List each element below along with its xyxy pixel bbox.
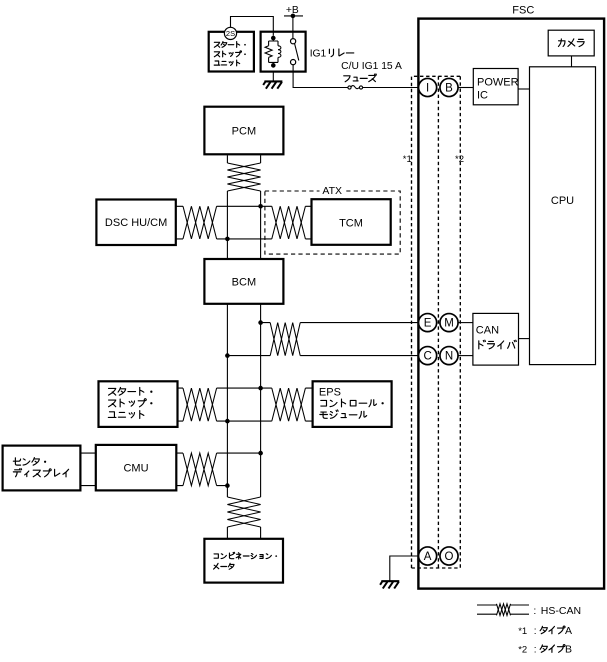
CPU box [530,67,596,365]
PCM box [204,107,283,155]
wire TCM twisted pair [272,206,306,239]
label start-stop lower line2 [109,399,153,407]
wire pin M to CAN driver [458,322,473,324]
wire center display to CMU [81,453,96,486]
label EPS line3 [320,410,367,418]
svg-text:M: M [444,318,454,330]
wire start-stop unit 2S to relay coil [231,17,274,36]
svg-text:B: B [445,83,453,95]
label C/U IG1 15 A fuse [341,61,402,72]
svg-text:E: E [424,318,432,330]
pin I [419,78,437,96]
connector 2S [224,27,236,39]
CMU box [96,445,177,491]
relay coil inductor element [278,46,281,58]
label start-stop lower line3 [108,411,143,419]
svg-text:EPS: EPS [319,386,341,398]
node relay coil top [271,36,276,41]
wire HS-CAN twisted pair above combination meter [227,497,260,527]
wire CAN-L bus vertical lower [226,304,228,497]
label start-stop lower line1 [109,387,153,395]
node CAN-H EPS row [258,386,263,391]
node CAN-L CMU row [225,483,230,488]
wire DSC/TCM row across bus [217,206,272,239]
wire DSC twisted pair [183,206,217,239]
CAN driver box [473,313,519,365]
wire EPS twisted pair [272,388,306,421]
pin B [440,78,458,96]
label *1 type A column [403,154,412,165]
svg-text:CAN: CAN [476,325,499,337]
svg-text:FSC: FSC [512,4,534,16]
wire pin A to ground [390,556,419,581]
svg-text:TCM: TCM [339,217,363,229]
svg-text:BCM: BCM [232,276,256,288]
svg-text:ATX: ATX [322,185,342,197]
node CAN-H DSC row [258,204,263,209]
DSC HU/CM box [96,200,175,246]
svg-text:*1: *1 [403,154,412,165]
EPS control module box [313,381,392,427]
svg-text:DSC HU/CM: DSC HU/CM [105,217,167,229]
label fuse kana [344,74,377,82]
label start-stop unit line2 [214,51,246,57]
label type B kana [540,645,565,653]
node +B junction [291,14,296,19]
combination meter box [204,539,283,583]
wire start-stop/EPS row across bus [217,388,272,421]
label CAN driver kana [479,340,517,349]
svg-text::: : [533,605,536,617]
wire PCM to bus stubs [227,155,260,163]
label center display line2 [13,469,68,477]
ground FSC pin A [380,581,399,588]
wire relay coil to ground [272,72,274,81]
pin N [440,347,458,365]
FSC box [418,4,604,588]
wire CMU twisted pair [183,453,217,486]
relay IG1 box [261,32,306,72]
node relay coil bottom [271,63,276,68]
BCM box [204,259,283,304]
label *2 type B column [455,154,464,165]
node CAN-H E row [258,320,263,325]
label center display line1 [13,458,46,466]
svg-text:A: A [565,625,572,637]
svg-text:C/U IG1 15 A: C/U IG1 15 A [341,61,402,72]
pin C [419,347,437,365]
label EPS line2 [321,399,384,407]
wire BCM-FSC twisted pair [270,323,300,356]
wire camera to CPU [571,56,573,67]
wire twisted pair to combination meter stubs [227,527,260,539]
TCM box [312,199,391,245]
svg-text:HS-CAN: HS-CAN [541,605,581,617]
wire start-stop stub [178,388,184,421]
label legend *1 type A [518,625,572,637]
relay coil frame [269,38,278,65]
label camera [558,39,584,47]
pin O [440,547,458,565]
svg-text:*2: *2 [518,644,527,655]
label legend HS-CAN [533,605,581,617]
ATX dashed box [265,185,400,254]
svg-text:N: N [445,351,453,363]
relay switch contacts [291,39,299,65]
wire start-stop twisted pair [183,388,217,421]
node CAN-H CMU row [258,451,263,456]
label combination meter line1 [214,552,277,559]
svg-text::: : [534,626,537,637]
svg-text:PCM: PCM [232,125,256,137]
wire +B supply bar [284,5,303,16]
node CAN-L C row [225,353,230,358]
svg-text:CMU: CMU [123,463,148,475]
node CAN-L EPS row [225,419,230,424]
wire BCM row to FSC pins E/C [227,323,418,356]
svg-text:I: I [426,83,429,95]
svg-text:O: O [445,551,454,563]
node CAN-L DSC row [225,237,230,242]
start-stop unit (lower) box [99,381,178,427]
start-stop unit (top) box [209,32,254,72]
svg-text::: : [534,644,537,655]
svg-text:*2: *2 [455,154,464,165]
label start-stop unit line1 [214,42,246,48]
connector dashed box type A / type B [412,76,461,568]
pin E [419,314,437,332]
label combination meter line2 [214,563,234,569]
svg-text:2S: 2S [226,29,235,38]
wire pin N to CAN driver [458,355,473,357]
svg-text:*1: *1 [518,626,527,637]
POWER IC box [473,69,518,105]
center display box [3,446,81,491]
wire POWER IC to CPU [518,88,529,90]
wire CAN driver to CPU [519,338,530,340]
svg-text:A: A [424,551,432,563]
svg-text:IC: IC [477,90,488,102]
wire fuse to FSC pin I [363,87,419,89]
wire CMU row to bus [217,453,261,486]
legend HS-CAN twisted pair symbol [477,604,529,616]
svg-text:B: B [565,643,572,655]
svg-text:POWER: POWER [477,76,519,88]
svg-text:C: C [423,351,431,363]
label type A kana [540,626,565,634]
wire pin B to POWER IC [458,87,473,89]
label IG1 relay kana [329,49,353,57]
wire +B to relay switch [292,16,294,39]
label legend *2 type B [518,643,572,655]
camera unit box [548,30,594,56]
ground relay coil [263,81,282,88]
wire DSC stub [176,206,183,239]
wire CMU stub [176,453,183,486]
wire CAN-H bus vertical upper [260,191,262,259]
pin M [440,314,458,332]
relay coil resistor element [265,46,272,58]
svg-text:CPU: CPU [551,195,574,207]
wire CAN-L bus vertical upper [226,191,228,259]
wire TCM stub [305,206,311,239]
svg-text:IG1: IG1 [310,49,327,60]
pin A [419,547,437,565]
fuse C/U IG1 15A [348,86,363,90]
label start-stop unit line3 [214,60,239,66]
label IG1 relay [310,49,327,60]
wire HS-CAN twisted pair below PCM [227,163,260,191]
wire EPS stub [305,388,312,421]
wire CAN-H bus vertical lower [260,304,262,497]
wire relay switch to fuse [293,65,348,88]
